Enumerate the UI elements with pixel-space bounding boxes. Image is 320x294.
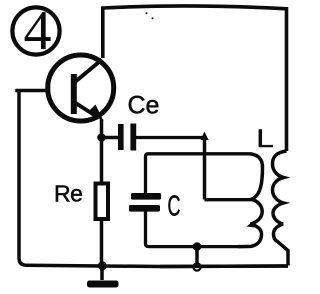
svg-text:4: 4 xyxy=(24,0,52,62)
svg-text:Ce: Ce xyxy=(128,92,160,120)
svg-text:C: C xyxy=(168,190,181,222)
svg-text:L: L xyxy=(256,125,274,153)
svg-text:Re: Re xyxy=(54,181,82,207)
